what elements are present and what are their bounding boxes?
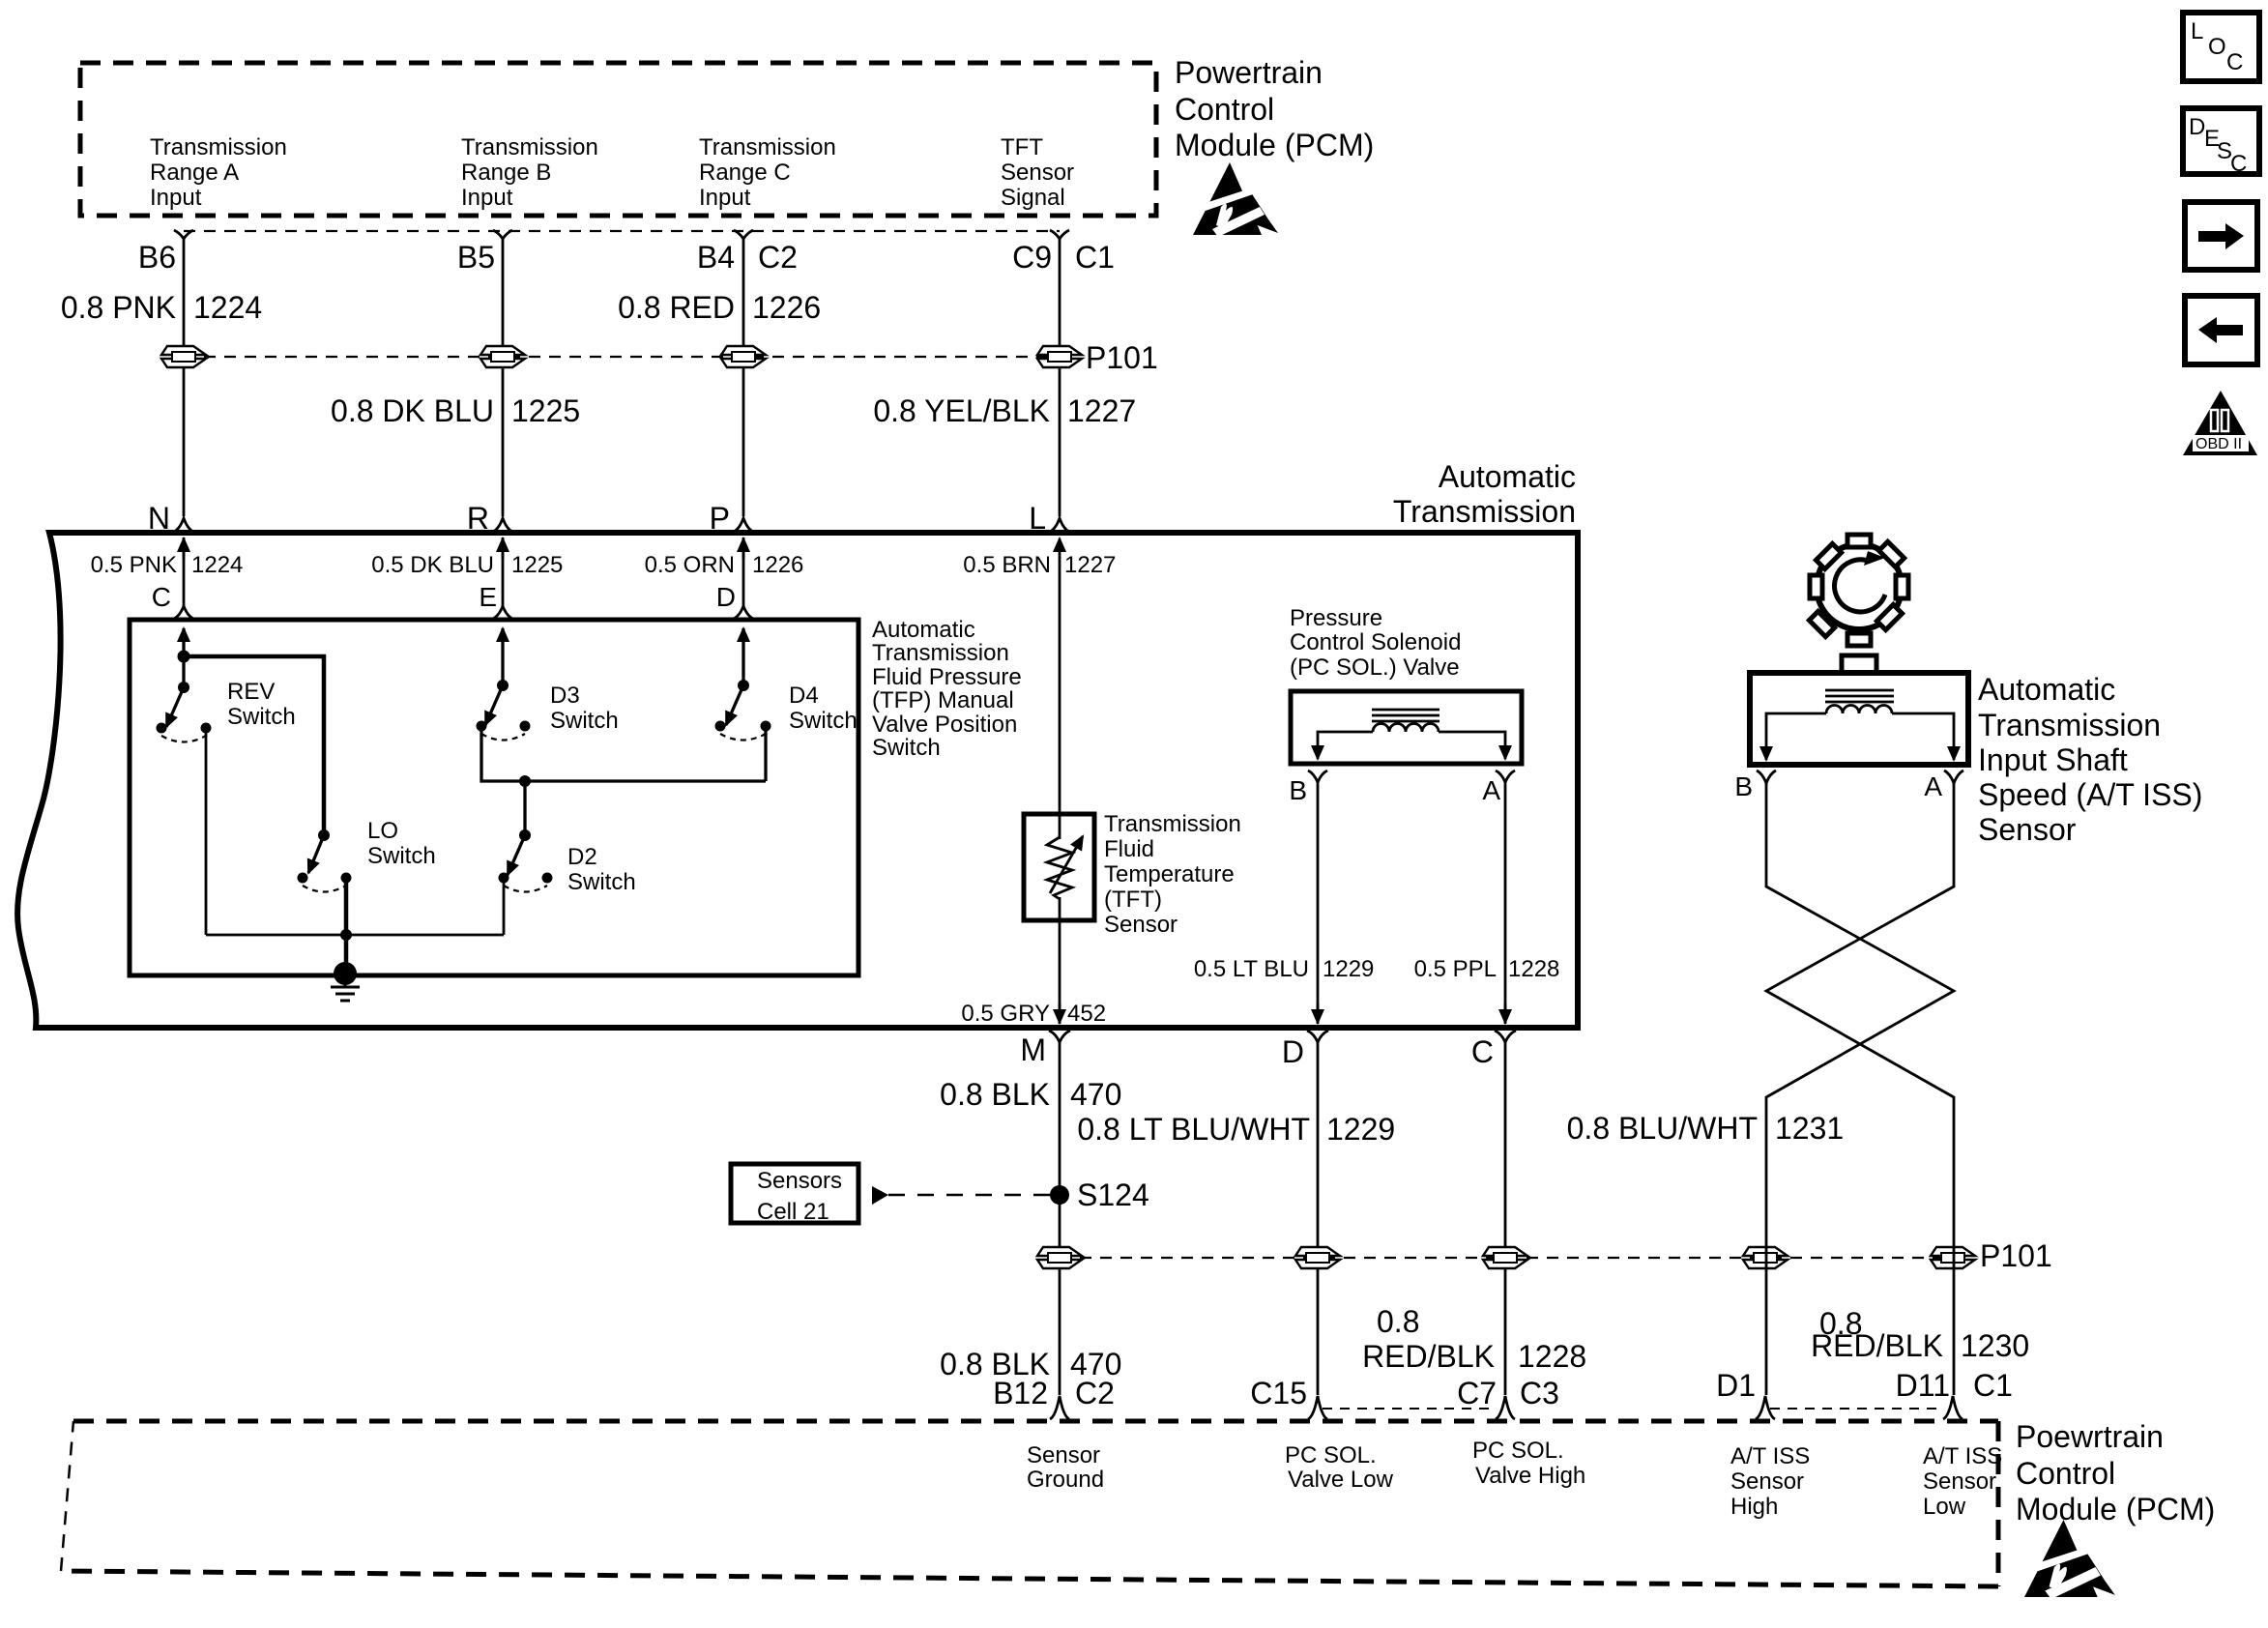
ISS sensor box [1750, 673, 1968, 765]
inline connector P101 on wire M [1037, 1247, 1082, 1268]
label 0.8 BLK 470 upper [940, 1077, 1121, 1112]
svg-text:Transmission: Transmission [1393, 494, 1576, 529]
svg-text:B12: B12 [993, 1376, 1048, 1410]
svg-text:D: D [716, 582, 736, 612]
label 0.8 PNK 1224 [61, 290, 262, 325]
TFP entry arrow E [501, 628, 504, 685]
entry arrow N [183, 538, 186, 559]
inline connector P101 on wire 2 [480, 346, 525, 367]
svg-text:Sensor: Sensor [1978, 812, 2077, 847]
wire B4 to P [742, 239, 745, 516]
ISS lead A [1892, 713, 1954, 760]
svg-text:C3: C3 [1520, 1376, 1559, 1410]
wire R to E [502, 538, 505, 606]
svg-text:C: C [2226, 49, 2243, 75]
label Transmission Range A Input [150, 134, 287, 211]
label 0.8 DK BLU 1225 [331, 393, 580, 428]
svg-text:Input Shaft: Input Shaft [1978, 742, 2128, 777]
svg-text:Switch: Switch [227, 704, 296, 730]
break at N [174, 518, 193, 532]
node junction on wire C [178, 651, 190, 663]
exit arrow M [1059, 1003, 1061, 1023]
label 0.8 YEL/BLK 1227 [873, 393, 1136, 428]
svg-text:0.5 PNK: 0.5 PNK [91, 552, 177, 578]
svg-text:Powertrain: Powertrain [1175, 55, 1323, 90]
label 0.5 ORN 1226 [645, 552, 804, 578]
svg-text:PC SOL.: PC SOL. [1472, 1438, 1564, 1464]
svg-text:0.8 LT BLU/WHT: 0.8 LT BLU/WHT [1077, 1112, 1310, 1147]
svg-text:452: 452 [1067, 1001, 1106, 1027]
svg-text:E: E [479, 582, 497, 612]
svg-text:1228: 1228 [1518, 1339, 1586, 1374]
svg-text:Sensor: Sensor [1001, 160, 1074, 186]
svg-text:1230: 1230 [1961, 1328, 2029, 1363]
svg-text:Sensor: Sensor [1104, 912, 1178, 938]
label 0.5 BRN 1227 [963, 552, 1116, 578]
label 0.8 BLU/WHT 1231 [1567, 1111, 1845, 1146]
svg-text:Sensors: Sensors [757, 1168, 842, 1194]
label D4 Switch [789, 683, 858, 734]
svg-text:Automatic: Automatic [872, 617, 975, 643]
svg-text:Ground: Ground [1027, 1467, 1104, 1493]
break at R [493, 518, 512, 532]
svg-text:D11: D11 [1896, 1368, 1950, 1403]
svg-text:Sensor: Sensor [1923, 1468, 1996, 1495]
svg-text:D: D [1282, 1034, 1304, 1069]
label Poewrtrain Control Module (PCM) [2016, 1419, 2215, 1526]
svg-text:470: 470 [1070, 1077, 1121, 1112]
svg-text:B: B [1734, 771, 1753, 801]
wire bus REV/LO/D2 [206, 934, 504, 937]
svg-text:0.5 BRN: 0.5 BRN [963, 552, 1051, 578]
label 0.5 LT BLU 1229 [1194, 956, 1375, 982]
ISS sensor stem [1842, 655, 1876, 673]
label 0.5 PNK 1224 [91, 552, 244, 578]
svg-text:Module (PCM): Module (PCM) [1175, 128, 1374, 162]
wire PC SOL A down [1504, 782, 1507, 1024]
callout arrow [872, 1186, 888, 1205]
ESD symbol top [1193, 162, 1278, 237]
icon LOC box [2183, 13, 2259, 81]
inline connector P101 on wire D [1295, 1247, 1340, 1268]
LO switch [298, 829, 352, 892]
svg-text:High: High [1730, 1494, 1778, 1520]
svg-text:Switch: Switch [367, 843, 436, 869]
break at D1 [1756, 1396, 1775, 1419]
svg-text:Control: Control [2016, 1456, 2115, 1491]
svg-text:Valve Position: Valve Position [872, 712, 1017, 738]
wire D3 contact down and across to D4 [481, 726, 766, 781]
wire D4 contact down [764, 726, 767, 781]
REV switch [157, 682, 212, 742]
svg-text:1231: 1231 [1775, 1111, 1844, 1146]
dashed connector link D1-D11 [1770, 1408, 1941, 1410]
wire LO contact to ground [344, 878, 349, 974]
break at B12 [1050, 1396, 1069, 1419]
P101 dashed link bottom [1060, 1257, 1953, 1259]
svg-text:B6: B6 [138, 240, 176, 275]
svg-text:1224: 1224 [193, 290, 262, 325]
svg-text:Cell 21: Cell 21 [757, 1199, 829, 1225]
exit arrow D [1317, 1003, 1320, 1023]
connector break Y at B5 [493, 230, 512, 239]
svg-text:1227: 1227 [1067, 393, 1136, 428]
inline connector P101 on wire 4 [1037, 346, 1082, 367]
inline connector P101 on wire C [1483, 1247, 1527, 1268]
svg-text:B5: B5 [457, 240, 495, 275]
svg-text:Transmission: Transmission [1978, 708, 2161, 742]
wire C junction to LO switch feed [184, 656, 324, 835]
TFT sensor box [1024, 814, 1094, 920]
svg-text:0.5 DK BLU: 0.5 DK BLU [371, 552, 494, 578]
label Automatic Transmission Input Shaft Speed (A/T ISS) Sensor [1978, 672, 2202, 847]
svg-text:Range B: Range B [461, 160, 551, 186]
wire junction to REV switch [182, 656, 185, 687]
svg-text:D4: D4 [789, 683, 819, 709]
wire link dashed line below PCM box [184, 230, 1060, 232]
svg-text:(TFT): (TFT) [1104, 887, 1162, 913]
entry arrow P [742, 538, 745, 559]
PC SOL coil [1373, 724, 1439, 733]
svg-text:Input: Input [150, 185, 202, 211]
wire M down [1059, 1042, 1061, 1395]
wire D down [1317, 1042, 1320, 1395]
svg-text:M: M [1020, 1032, 1046, 1067]
label LO Switch [367, 818, 436, 869]
break at C7 [1496, 1396, 1515, 1419]
svg-text:Switch: Switch [567, 869, 636, 895]
svg-text:RED/BLK: RED/BLK [1811, 1328, 1943, 1363]
svg-text:Transmission: Transmission [1104, 811, 1241, 837]
break at M [1049, 1031, 1070, 1042]
TFP entry arrow C [182, 628, 185, 656]
svg-text:Input: Input [699, 185, 751, 211]
node D2 feed junction [519, 775, 531, 787]
label 0.5 GRY 452 [961, 1001, 1106, 1027]
svg-text:0.8 BLK: 0.8 BLK [940, 1077, 1050, 1112]
wire L to TFT sensor [1059, 559, 1061, 839]
TFT variable arrow [1050, 836, 1083, 893]
TFP entry arrow D [741, 628, 744, 685]
break at P [734, 518, 753, 532]
svg-text:1227: 1227 [1064, 552, 1116, 578]
svg-text:C: C [152, 582, 171, 612]
svg-text:A/T ISS: A/T ISS [1730, 1443, 1810, 1469]
label 0.8 RED/BLK 1230 [1811, 1306, 2029, 1363]
svg-text:1228: 1228 [1508, 956, 1559, 982]
svg-text:0.8 YEL/BLK: 0.8 YEL/BLK [873, 393, 1050, 428]
svg-text:1226: 1226 [752, 552, 803, 578]
icon back arrow box [2185, 296, 2257, 364]
svg-text:1225: 1225 [511, 552, 563, 578]
svg-text:PC SOL.: PC SOL. [1285, 1442, 1377, 1468]
label Automatic Transmission [1393, 459, 1576, 529]
TFT thermistor zigzag [1047, 837, 1072, 899]
PC SOL valve box [1291, 691, 1522, 764]
svg-text:0.8 PNK: 0.8 PNK [61, 290, 176, 325]
icon forward arrow box [2185, 202, 2257, 270]
svg-text:0.8 BLU/WHT: 0.8 BLU/WHT [1567, 1111, 1758, 1146]
svg-text:P101: P101 [1086, 340, 1158, 375]
wire B5 to R [502, 239, 505, 516]
label Sensor Ground [1027, 1442, 1104, 1493]
svg-text:A: A [1924, 771, 1942, 801]
svg-text:Range C: Range C [699, 160, 791, 186]
P101 dashed link top [184, 356, 1060, 358]
Sensors Cell 21 callout box [731, 1164, 858, 1223]
svg-text:Range A: Range A [150, 160, 239, 186]
svg-text:B: B [1289, 775, 1307, 805]
svg-text:Control: Control [1175, 92, 1274, 127]
wire PC SOL B down [1317, 782, 1320, 1024]
exit arrow C [1504, 1003, 1507, 1023]
svg-text:REV: REV [227, 679, 275, 705]
PCM top dashed box [80, 63, 1156, 216]
wire ISS A twisted [1766, 783, 1954, 1395]
label 0.5 PPL 1228 [1414, 956, 1560, 982]
break at D11 [1943, 1396, 1963, 1419]
callout dashed line [888, 1194, 1050, 1197]
ground junction node [340, 929, 352, 941]
svg-text:1229: 1229 [1326, 1112, 1395, 1147]
svg-text:Pressure: Pressure [1290, 605, 1382, 631]
svg-text:Switch: Switch [872, 735, 941, 761]
label D3 Switch [550, 683, 619, 734]
label Pressure Control Solenoid (PC SOL.) Valve [1290, 605, 1461, 681]
svg-text:Switch: Switch [789, 708, 858, 734]
ISS coil [1826, 706, 1892, 714]
svg-text:D: D [2189, 114, 2205, 140]
icon OBD II triangle [2183, 391, 2257, 455]
svg-text:O: O [2208, 34, 2226, 60]
PCM bottom dashed box [61, 1421, 1998, 1586]
ISS lead B [1766, 713, 1826, 760]
inline connector P101 on wire ISS B [1743, 1247, 1788, 1268]
entry arrow L [1059, 538, 1061, 559]
svg-text:0.5 LT BLU: 0.5 LT BLU [1194, 956, 1309, 982]
label REV Switch [227, 679, 296, 730]
svg-text:Transmission: Transmission [461, 134, 598, 160]
ground symbol [331, 974, 360, 1001]
break at ISS pin A [1944, 770, 1963, 783]
svg-text:(TFP) Manual: (TFP) Manual [872, 687, 1014, 713]
svg-text:Transmission: Transmission [872, 640, 1009, 666]
svg-text:C9: C9 [1012, 240, 1052, 275]
svg-text:Valve High: Valve High [1475, 1463, 1585, 1489]
svg-text:0.8: 0.8 [1377, 1304, 1419, 1339]
svg-text:0.5 ORN: 0.5 ORN [645, 552, 735, 578]
svg-text:D1: D1 [1716, 1368, 1756, 1403]
break at C [174, 606, 193, 619]
svg-text:C1: C1 [1075, 240, 1115, 275]
reluctor gear icon [1783, 515, 1931, 663]
svg-text:Automatic: Automatic [1978, 672, 2115, 707]
label 0.8 RED 1226 [618, 290, 821, 325]
D4 switch [715, 680, 771, 741]
wire junction to D2 [523, 781, 526, 835]
ISS core lines [1825, 690, 1894, 702]
svg-text:Transmission: Transmission [699, 134, 836, 160]
svg-text:Signal: Signal [1001, 185, 1065, 211]
svg-text:L: L [2191, 18, 2203, 44]
svg-text:Fluid: Fluid [1104, 836, 1154, 862]
wire REV NC contact down [205, 728, 208, 935]
break at C15 [1308, 1396, 1327, 1419]
svg-text:Input: Input [461, 185, 513, 211]
label PC SOL. Valve High [1472, 1438, 1585, 1489]
svg-text:Module (PCM): Module (PCM) [2016, 1492, 2215, 1526]
svg-text:C: C [2230, 151, 2247, 177]
label 0.8 RED/BLK 1228 [1362, 1304, 1586, 1374]
svg-text:A: A [1482, 775, 1500, 805]
label PC SOL. Valve Low [1285, 1442, 1394, 1493]
svg-text:Temperature: Temperature [1104, 861, 1235, 887]
break at E [493, 606, 512, 619]
wire ISS B twisted [1766, 783, 1954, 1395]
svg-text:0.8 DK BLU: 0.8 DK BLU [331, 393, 494, 428]
label A/T ISS Sensor Low [1923, 1443, 2002, 1520]
entry arrow R [502, 538, 505, 559]
svg-text:1224: 1224 [191, 552, 243, 578]
svg-text:P101: P101 [1980, 1238, 2052, 1273]
wire P to D [742, 538, 745, 606]
break at L [1050, 518, 1069, 532]
connector break Y at B4/C2 [734, 230, 753, 239]
svg-text:C2: C2 [758, 240, 798, 275]
svg-text:S124: S124 [1077, 1177, 1149, 1212]
inline connector P101 on wire 1 [161, 346, 206, 367]
break at D [1307, 1031, 1328, 1042]
label D2 Switch [567, 844, 636, 895]
svg-text:Speed (A/T ISS): Speed (A/T ISS) [1978, 777, 2202, 812]
icon DESC box [2183, 108, 2259, 177]
wire D2 contact down to bus [503, 878, 506, 935]
svg-text:Sensor: Sensor [1027, 1442, 1100, 1468]
break at C [1495, 1031, 1516, 1042]
label Transmission Fluid Temperature (TFT) Sensor [1104, 811, 1241, 938]
wire C down [1504, 1042, 1507, 1395]
break at ISS pin B [1757, 770, 1776, 783]
svg-text:B4: B4 [697, 240, 735, 275]
D3 switch [477, 680, 531, 741]
svg-text:Poewrtrain: Poewrtrain [2016, 1419, 2164, 1454]
svg-text:Fluid Pressure: Fluid Pressure [872, 664, 1022, 690]
svg-text:1229: 1229 [1323, 956, 1374, 982]
connector break Y at C9/C1 [1050, 230, 1069, 239]
svg-text:C7: C7 [1457, 1376, 1497, 1410]
connector break Y at B6 [174, 230, 193, 239]
svg-text:OBD II: OBD II [2195, 436, 2242, 452]
svg-text:Sensor: Sensor [1730, 1468, 1804, 1495]
label 0.8 LT BLU/WHT 1229 [1077, 1112, 1395, 1147]
label Transmission Range C Input [699, 134, 836, 211]
svg-text:Switch: Switch [550, 708, 619, 734]
svg-text:C2: C2 [1075, 1376, 1115, 1410]
ground splice blob [334, 962, 357, 985]
label 0.8 BLK 470 lower [940, 1347, 1121, 1381]
svg-text:Control Solenoid: Control Solenoid [1290, 629, 1461, 655]
label Powertrain Control Module (PCM) top [1175, 55, 1374, 162]
wire B6 to N [183, 239, 186, 516]
svg-text:Low: Low [1923, 1494, 1966, 1520]
PC SOL lead A [1439, 732, 1505, 759]
svg-text:Transmission: Transmission [150, 134, 287, 160]
svg-text:0.5 GRY: 0.5 GRY [961, 1001, 1050, 1027]
svg-text:TFT: TFT [1001, 134, 1043, 160]
svg-text:1225: 1225 [511, 393, 580, 428]
svg-text:LO: LO [367, 818, 398, 844]
svg-text:A/T ISS: A/T ISS [1923, 1443, 2002, 1469]
svg-text:(PC SOL.) Valve: (PC SOL.) Valve [1290, 654, 1460, 681]
svg-text:C: C [1471, 1034, 1494, 1069]
label 0.5 DK BLU 1225 [371, 552, 563, 578]
inline connector P101 on wire 3 [721, 346, 766, 367]
label Transmission Range B Input [461, 134, 598, 211]
svg-text:0.8 RED: 0.8 RED [618, 290, 735, 325]
label TFP block [872, 617, 1022, 761]
splice S124 [1050, 1185, 1069, 1205]
wire C9 to L [1059, 239, 1061, 516]
TFP switch box [130, 620, 858, 975]
svg-text:D3: D3 [550, 683, 580, 709]
inline connector P101 on wire ISS A [1931, 1247, 1975, 1268]
svg-text:0.5 PPL: 0.5 PPL [1414, 956, 1497, 982]
dashed connector link C15-C7 [1323, 1408, 1494, 1410]
label A/T ISS Sensor High [1730, 1443, 1810, 1520]
svg-text:C15: C15 [1250, 1376, 1307, 1410]
wire TFT to M [1059, 897, 1061, 1024]
svg-text:C1: C1 [1973, 1368, 2013, 1403]
D2 switch [499, 829, 553, 892]
svg-text:1226: 1226 [752, 290, 821, 325]
break at D [734, 606, 753, 619]
svg-text:Valve Low: Valve Low [1288, 1467, 1394, 1493]
PC SOL lead B [1318, 732, 1373, 759]
break at PC SOL pin B [1308, 770, 1327, 782]
svg-text:Automatic: Automatic [1439, 459, 1576, 494]
svg-text:D2: D2 [567, 844, 597, 870]
Automatic Transmission box outline [17, 533, 1578, 1028]
break at PC SOL pin A [1496, 770, 1515, 782]
PC SOL core lines [1372, 710, 1439, 721]
ESD symbol bottom [2024, 1520, 2115, 1599]
svg-text:RED/BLK: RED/BLK [1362, 1339, 1495, 1374]
label TFT Sensor Signal [1001, 134, 1074, 211]
wire N to C [183, 538, 186, 606]
